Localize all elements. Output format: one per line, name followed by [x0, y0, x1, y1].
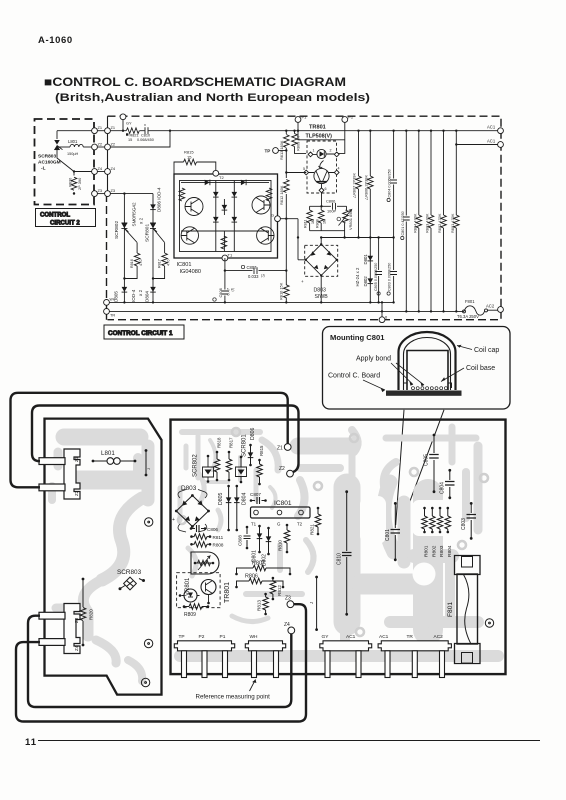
svg-text:Z1: Z1	[111, 125, 116, 130]
thyristor SCR802	[114, 202, 144, 242]
svg-text:Z2: Z2	[279, 466, 285, 472]
svg-text:Z2: Z2	[74, 490, 79, 496]
TR801 phototransistor	[303, 167, 340, 193]
svg-text:C801 0.47/250: C801 0.47/250	[401, 211, 405, 235]
node WH	[104, 298, 116, 306]
svg-text:IG04080: IG04080	[180, 269, 201, 275]
resistor R808 (pcb)	[190, 542, 224, 548]
svg-text:D805: D805	[218, 492, 224, 505]
capacitor C805 (pcb)	[424, 434, 439, 494]
svg-text:x: x	[144, 123, 146, 127]
svg-text:C803: C803	[461, 518, 467, 530]
resistor R817	[152, 243, 171, 280]
svg-text:T2: T2	[219, 175, 224, 180]
resistor R813 (pcb)	[257, 593, 269, 616]
node Z4 (pcb pad)	[284, 622, 295, 634]
node AC1	[487, 125, 503, 134]
svg-text:Z3: Z3	[111, 188, 116, 193]
svg-text:AC1: AC1	[487, 125, 496, 130]
wire TR rail	[107, 310, 465, 312]
wire Z1 row to SCR803	[57, 130, 92, 132]
svg-text:IC801: IC801	[177, 262, 192, 268]
zener D802	[355, 267, 373, 286]
svg-text:CONTROL CIRCUIT 1: CONTROL CIRCUIT 1	[108, 330, 173, 337]
control circuit 2 label box	[36, 209, 96, 227]
diode D805 (pcb)	[218, 485, 231, 532]
junction dots on WH rail	[123, 301, 125, 303]
coil cap	[399, 332, 456, 390]
resistor R807 (pcb)	[235, 561, 291, 576]
diode D801 (pcb)	[252, 525, 263, 562]
wire TR801 label box	[298, 131, 345, 140]
svg-text:R820: R820	[68, 177, 73, 187]
lower connector left board	[39, 604, 80, 654]
junction dot Z3 rail	[123, 192, 125, 194]
svg-text:R802 470K: R802 470K	[437, 213, 442, 233]
capacitor C801	[401, 130, 410, 313]
resistor R807	[352, 130, 362, 239]
node Z1 (pcb pad)	[277, 444, 291, 452]
svg-text:100P: 100P	[327, 208, 336, 213]
node GY	[120, 114, 132, 132]
svg-text:R821: R821	[130, 134, 139, 138]
svg-text:R808: R808	[316, 219, 320, 228]
svg-text:L801: L801	[68, 139, 78, 144]
svg-text:△R806 2P39K: △R806 2P39K	[363, 175, 368, 200]
svg-text:1M: 1M	[311, 219, 315, 224]
left board outline	[45, 419, 162, 695]
transistor Q3	[252, 196, 270, 214]
capacitor C804	[387, 130, 397, 238]
svg-text:0.068/450: 0.068/450	[137, 138, 154, 142]
right board outline	[171, 420, 506, 674]
transistor Q2	[181, 227, 198, 244]
svg-text:R812 180K: R812 180K	[279, 185, 284, 205]
svg-text:C807: C807	[247, 265, 258, 270]
svg-text:Z4: Z4	[74, 645, 79, 651]
diode D802 (pcb)	[262, 527, 272, 566]
svg-text:C806: C806	[326, 199, 335, 204]
svg-text:SCR802: SCR802	[114, 221, 120, 239]
svg-text:P1: P1	[302, 115, 308, 120]
reference measuring point label	[196, 680, 271, 701]
svg-text:R816: R816	[130, 259, 134, 268]
IC internal diodes	[205, 180, 246, 223]
wire bus 237	[321, 237, 393, 239]
capacitor C805	[374, 236, 382, 303]
svg-text:G: G	[277, 522, 281, 527]
svg-text:2: 2	[330, 149, 332, 153]
capacitor C808 (pcb)	[238, 526, 251, 550]
svg-text:C804: C804	[440, 482, 446, 494]
svg-text:HZ-24 x 2: HZ-24 x 2	[355, 267, 360, 286]
svg-text:R812: R812	[277, 585, 282, 596]
left board copper traces	[52, 437, 148, 681]
svg-text:■CONTROL C. BOARD∕SCHEMATIC DI: ■CONTROL C. BOARD∕SCHEMATIC DIAGRAM	[44, 75, 346, 89]
fuse F801 (pcb)	[447, 556, 480, 664]
svg-text:R803: R803	[439, 545, 445, 557]
svg-text:Reference measuring point: Reference measuring point	[196, 694, 271, 701]
svg-text:C804 0.0068/250: C804 0.0068/250	[388, 169, 392, 197]
resistor R815	[174, 150, 216, 175]
svg-text:1M: 1M	[323, 219, 327, 224]
svg-text:△R807 2P39K: △R807 2P39K	[352, 173, 357, 198]
bridge rectifier D803	[301, 236, 338, 303]
wire pin5 to column	[286, 172, 306, 174]
svg-text:T6.3A 250V: T6.3A 250V	[457, 314, 479, 319]
optocoupler TR801 dashed box	[307, 141, 337, 193]
resistor R809 (pcb)	[183, 604, 210, 618]
apply bond dots	[412, 387, 448, 390]
svg-text:SCR802: SCR802	[193, 454, 199, 477]
main rail from Z1 (GY net)	[110, 130, 497, 132]
diode D805	[114, 287, 144, 302]
wire loop Z3 to lower connector	[16, 604, 306, 721]
svg-text:+: +	[172, 517, 175, 523]
svg-text:GY: GY	[126, 121, 132, 126]
svg-text:IC801: IC801	[274, 500, 292, 507]
capacitor C807 (pcb)	[250, 492, 267, 504]
wire R813/R812/R810 column	[285, 131, 287, 303]
svg-text:D804: D804	[242, 492, 248, 505]
node P1	[295, 115, 307, 132]
TR801 LED	[308, 149, 339, 169]
resistor R815 (pcb)	[257, 445, 264, 485]
wire loop Z4 to lower connector	[28, 616, 291, 707]
wire AC1 second rail	[455, 139, 503, 148]
svg-text:R802: R802	[431, 545, 437, 557]
svg-text:SCR803: SCR803	[117, 569, 142, 576]
diode D804	[145, 287, 156, 302]
svg-text:R811: R811	[213, 535, 224, 540]
node Z2 (pcb pad)	[279, 466, 293, 477]
resistor R817 (pcb)	[226, 437, 233, 481]
resistor R812	[279, 180, 289, 206]
thyristor SCR803	[38, 131, 74, 172]
capacitor C803	[387, 236, 397, 303]
svg-text:(J): (J)	[261, 273, 265, 277]
svg-text:C801: C801	[385, 529, 391, 541]
SCHEMATIC	[35, 114, 504, 339]
page footer	[25, 737, 540, 748]
potentiometer VR801	[310, 206, 353, 238]
svg-text:Mounting C801: Mounting C801	[330, 333, 385, 342]
capacitor C806 (pcb)	[190, 525, 219, 532]
svg-text:T1: T1	[228, 253, 233, 258]
IC internal wires	[181, 181, 269, 252]
resistor R806 (pcb)	[235, 574, 284, 589]
upper connector left board	[39, 449, 80, 499]
svg-text:Z3: Z3	[285, 596, 291, 602]
wire G net	[280, 219, 305, 260]
op-amp U1 IC801 (pcb)	[251, 500, 311, 527]
svg-text:R803 470K: R803 470K	[425, 213, 430, 233]
svg-text:C810: C810	[337, 553, 343, 565]
capacitor C810 (pcb)	[337, 490, 352, 615]
svg-text:C803 0.0068/250: C803 0.0068/250	[388, 263, 392, 291]
label Coil cap	[457, 345, 499, 354]
svg-text:AC1: AC1	[487, 139, 496, 144]
svg-text:SCR803: SCR803	[38, 154, 56, 160]
svg-text:TR801: TR801	[309, 125, 326, 131]
svg-text:C805 0.0068/250: C805 0.0068/250	[374, 263, 378, 291]
TR801 label	[306, 125, 333, 140]
inductor L801 (pcb)	[92, 450, 137, 464]
svg-text:C810: C810	[141, 134, 150, 138]
diode D804 (pcb)	[234, 485, 248, 532]
connector comb TP/P2/P1	[174, 634, 234, 678]
resistor R820 (pcb)	[80, 578, 93, 647]
svg-text:R810 15K: R810 15K	[279, 282, 284, 300]
svg-text:C805: C805	[424, 454, 430, 466]
svg-text:x 2: x 2	[139, 217, 144, 224]
resistor R802 (pcb)	[430, 507, 438, 557]
wire pin6 down	[321, 193, 323, 207]
svg-text:Z4: Z4	[111, 166, 116, 171]
svg-text:AC1: AC1	[346, 634, 356, 640]
node TR	[104, 309, 116, 318]
jumper J (left board)	[145, 449, 151, 476]
svg-text:F801: F801	[447, 602, 454, 617]
svg-text:6: 6	[385, 315, 388, 320]
resistor R813	[279, 135, 289, 161]
resistor R803 (pcb)	[437, 507, 445, 557]
resistor R802	[437, 130, 446, 313]
svg-text:Z1: Z1	[277, 446, 283, 452]
svg-text:T2: T2	[297, 522, 303, 527]
label Coil base	[441, 365, 495, 382]
svg-text:TP: TP	[179, 634, 185, 640]
svg-text:Z2: Z2	[98, 141, 103, 146]
control circuit 2 dashed enclosure	[35, 119, 95, 205]
bridge D803 (pcb)	[172, 485, 210, 532]
jumper J (right board)	[309, 576, 318, 631]
svg-text:1: 1	[313, 149, 315, 153]
svg-text:TLP508(V): TLP508(V)	[306, 134, 333, 140]
svg-text:L801: L801	[101, 450, 115, 457]
svg-text:R811: R811	[304, 220, 308, 228]
resistor R811 (pcb)	[190, 534, 223, 540]
svg-text:C807: C807	[250, 492, 261, 497]
resistor R816	[123, 243, 143, 280]
svg-text:470: 470	[138, 259, 143, 266]
capacitor C810	[137, 123, 154, 142]
resistor R821 (pcb)	[310, 507, 321, 536]
resistor R801	[450, 130, 459, 313]
wire Z3 rail to SCR ladder	[110, 194, 153, 303]
PCB LAYOUT	[11, 393, 506, 722]
svg-text:TP: TP	[265, 149, 271, 154]
IC internal resistors	[179, 188, 185, 201]
resistor R812 (pcb)	[270, 577, 282, 601]
svg-text:R813: R813	[257, 600, 262, 611]
svg-text:TR801: TR801	[224, 582, 231, 603]
node T2	[213, 170, 225, 179]
svg-text:VR801 85K: VR801 85K	[348, 210, 353, 230]
svg-text:Z1: Z1	[74, 456, 79, 462]
svg-text:15: 15	[128, 138, 132, 142]
white clearances in trace	[360, 496, 456, 586]
node Z4	[92, 166, 116, 175]
op-amp U1 IC801 outer box	[174, 174, 278, 258]
node P2	[338, 115, 354, 154]
wire WH rail	[107, 301, 394, 303]
svg-text:150µH: 150µH	[67, 152, 79, 156]
coil base	[407, 351, 448, 391]
diode D806 (pcb)	[248, 427, 256, 466]
capacitor C803 (pcb)	[461, 502, 476, 540]
thyristor SCR801	[145, 223, 165, 243]
svg-text:Z3: Z3	[74, 617, 79, 623]
svg-text:(J): (J)	[231, 288, 235, 292]
svg-text:SM0R5G42: SM0R5G42	[132, 202, 137, 226]
svg-text:P2: P2	[199, 634, 205, 640]
wire loop Z2 to upper connector	[32, 406, 299, 473]
capacitor C804 (pcb)	[440, 469, 455, 499]
resistor R818 (pcb)	[214, 437, 221, 481]
svg-text:TR: TR	[110, 314, 115, 318]
svg-text:2P 390: 2P 390	[77, 177, 82, 190]
svg-text:6: 6	[325, 187, 327, 191]
svg-text:G: G	[271, 213, 274, 218]
svg-text:AC160GM: AC160GM	[38, 160, 61, 166]
main schematic frame (control circuit 1)	[107, 116, 502, 320]
node T1	[222, 253, 233, 261]
connector comb WH	[245, 634, 285, 678]
node Z2	[92, 141, 115, 150]
node G	[271, 213, 280, 222]
fuse F801	[457, 299, 498, 319]
capacitor C807	[224, 258, 288, 279]
resistor R804	[412, 130, 421, 313]
resistor R801 (pcb)	[422, 507, 430, 557]
resistor R811	[304, 206, 316, 230]
svg-text:IOD-4: IOD-4	[131, 289, 136, 302]
resistor R810 (pcb)	[278, 524, 290, 554]
svg-text:AC1: AC1	[379, 634, 389, 640]
svg-text:D806: D806	[250, 427, 256, 440]
resistor R809	[292, 130, 306, 154]
svg-text:Z2: Z2	[111, 141, 116, 146]
svg-text:TR: TR	[407, 634, 414, 640]
MOUNTING C801 INSET	[323, 327, 511, 527]
svg-text:SCR801: SCR801	[145, 224, 151, 242]
node AC2	[486, 304, 503, 313]
wire loop Z1 to upper connector	[11, 393, 288, 488]
svg-text:(Britsh,Australian and North E: (Britsh,Australian and North European mo…	[55, 92, 370, 104]
svg-text:Z1: Z1	[98, 125, 103, 130]
svg-text:D806 IOD-4: D806 IOD-4	[157, 187, 162, 212]
svg-text:Apply bond: Apply bond	[356, 356, 391, 363]
svg-text:Coil base: Coil base	[466, 365, 495, 372]
svg-text:Z3: Z3	[98, 188, 103, 193]
svg-text:A-1060: A-1060	[38, 35, 73, 46]
svg-text:AC2: AC2	[434, 634, 444, 640]
svg-text:11: 11	[25, 737, 37, 748]
svg-text:P1: P1	[220, 634, 226, 640]
solder pad rings	[178, 428, 488, 636]
transistor TR801 (pcb)	[177, 573, 231, 608]
zener D801	[363, 238, 373, 304]
svg-text:470: 470	[166, 259, 171, 266]
svg-text:D804: D804	[145, 291, 150, 302]
svg-text:-L: -L	[41, 166, 46, 172]
svg-text:R804 470K: R804 470K	[412, 213, 417, 233]
IC801 label	[177, 262, 201, 275]
svg-text:R820: R820	[89, 609, 94, 620]
svg-text:P2: P2	[348, 115, 354, 120]
inductor L801	[57, 139, 92, 156]
svg-text:Z4: Z4	[284, 622, 290, 628]
svg-text:D802: D802	[363, 276, 368, 287]
svg-text:F801: F801	[465, 299, 475, 304]
resistor R808	[316, 206, 327, 230]
potentiometer VR801 (pcb)	[185, 552, 219, 596]
connector comb AC1/TR/AC2	[378, 634, 451, 678]
svg-text:R815: R815	[259, 445, 264, 456]
svg-text:R801 470K: R801 470K	[450, 213, 455, 233]
svg-text:R808: R808	[213, 543, 224, 548]
control circuit 1 label box	[104, 325, 184, 339]
thyristor SCR801 (pcb)	[236, 434, 248, 484]
svg-text:15: 15	[187, 155, 192, 160]
capacitor C806	[310, 199, 347, 214]
thyristor SCR803 (pcb)	[117, 569, 145, 590]
svg-text:R817: R817	[229, 437, 234, 448]
svg-text:5: 5	[303, 167, 305, 171]
svg-text:WH: WH	[250, 634, 259, 640]
svg-text:C808: C808	[218, 288, 223, 297]
resistor R806	[363, 130, 373, 239]
diode D806	[150, 187, 161, 212]
svg-text:R817: R817	[158, 259, 162, 268]
capacitor C801 (pcb)	[385, 502, 400, 561]
svg-text:R806: R806	[245, 574, 258, 580]
thyristor SCR802 (pcb)	[193, 454, 214, 483]
svg-text:WH: WH	[110, 298, 116, 302]
inset box	[323, 327, 511, 410]
svg-text:D803: D803	[314, 288, 327, 294]
node Z1	[92, 125, 115, 134]
svg-text:Coil cap: Coil cap	[474, 347, 499, 354]
IC801 inner box	[180, 181, 272, 252]
resistor R821	[126, 128, 139, 142]
node Z3 (pcb pad)	[285, 596, 294, 608]
resistor R803	[425, 130, 434, 313]
svg-text:SIWB: SIWB	[315, 294, 329, 300]
node Z3	[92, 188, 115, 197]
svg-text:AC2: AC2	[486, 304, 495, 309]
svg-text:+: +	[301, 279, 304, 284]
node TP	[265, 148, 288, 154]
svg-text:R801: R801	[424, 545, 430, 557]
svg-text:D801: D801	[363, 254, 368, 265]
node 6	[379, 301, 388, 322]
svg-text:J: J	[309, 602, 314, 604]
svg-text:R821: R821	[310, 524, 315, 535]
svg-text:C808: C808	[238, 535, 243, 546]
resistor R810	[279, 282, 290, 300]
label Apply bond	[356, 356, 424, 387]
label Control C. Board	[328, 373, 385, 393]
transistor Q4	[257, 227, 274, 244]
svg-text:R804: R804	[447, 545, 453, 557]
svg-text:C806: C806	[207, 527, 218, 532]
svg-text:R809: R809	[184, 612, 196, 618]
wire Z2 row into frame	[110, 131, 170, 147]
capacitor C808	[213, 271, 235, 304]
svg-text:GY: GY	[322, 634, 330, 640]
